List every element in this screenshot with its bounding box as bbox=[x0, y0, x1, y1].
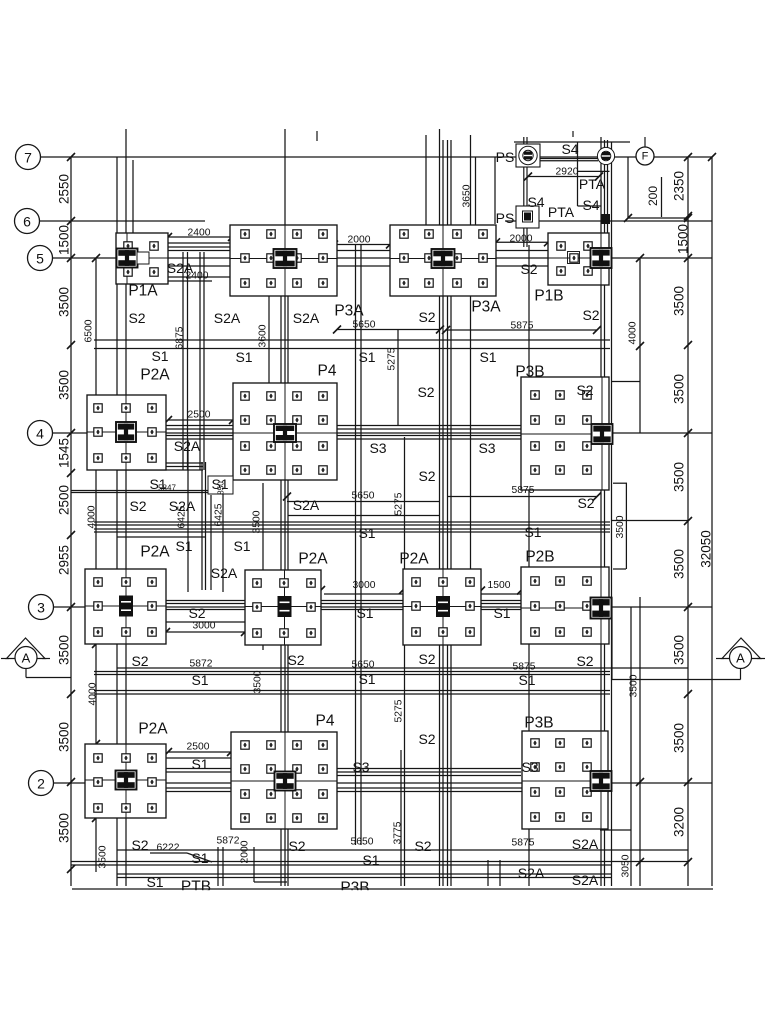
wire vertical line x=126 bbox=[125, 129, 127, 886]
svg-text:3500: 3500 bbox=[57, 813, 72, 843]
dimension 6500 (rotated) bbox=[84, 319, 95, 342]
wire vertical line x=447.5 bbox=[447, 140, 449, 886]
svg-text:S2: S2 bbox=[287, 652, 304, 668]
dimension ticks bbox=[67, 153, 716, 873]
wire strip/dimension line y=752 bbox=[168, 751, 231, 753]
wire strip/dimension line y=237 bbox=[168, 236, 285, 238]
wire strip/dimension line y=330 bbox=[446, 329, 597, 331]
wire strip/dimension line y=525 bbox=[94, 524, 610, 526]
svg-text:2920: 2920 bbox=[556, 167, 579, 178]
svg-text:S1: S1 bbox=[493, 605, 510, 621]
label S2 bbox=[582, 307, 599, 323]
svg-text:3650: 3650 bbox=[462, 184, 473, 207]
dimension 5275 (rotated) bbox=[394, 699, 405, 722]
grid bubble 3 bbox=[29, 595, 54, 620]
pile cap P2A row3 c bbox=[403, 569, 481, 645]
svg-text:2400: 2400 bbox=[188, 228, 211, 239]
wire vertical line x=475.5 bbox=[475, 157, 477, 248]
wire vertical line x=451 bbox=[450, 140, 452, 886]
svg-text:P3B: P3B bbox=[524, 715, 553, 732]
label S2 bbox=[288, 838, 305, 854]
label P2A bbox=[140, 544, 170, 561]
pile cap P3A right bbox=[390, 225, 496, 296]
svg-text:3500: 3500 bbox=[672, 723, 687, 753]
svg-text:2000: 2000 bbox=[348, 235, 371, 246]
label P3B bbox=[515, 364, 544, 381]
dimension 3600 (rotated) bbox=[258, 324, 269, 347]
label P3A bbox=[334, 303, 364, 320]
wire strip/dimension line y=420 bbox=[168, 419, 233, 421]
wire strip/dimension line y=850 bbox=[117, 849, 688, 851]
dimension 2500 bbox=[187, 742, 210, 753]
svg-text:S1: S1 bbox=[191, 850, 208, 866]
label S3 bbox=[352, 759, 369, 775]
svg-text:2350: 2350 bbox=[672, 171, 687, 201]
label S1 bbox=[149, 476, 166, 492]
dimension 5650 bbox=[352, 660, 375, 671]
svg-text:S1: S1 bbox=[479, 349, 496, 365]
label S1 bbox=[362, 852, 379, 868]
dimension 2920 bbox=[556, 167, 579, 178]
svg-text:S2: S2 bbox=[128, 310, 145, 326]
wire strip/dimension line y=861.5 bbox=[71, 861, 688, 863]
svg-text:S3: S3 bbox=[352, 759, 369, 775]
wire vertical line x=426 bbox=[425, 135, 427, 233]
wire vertical line x=631 bbox=[630, 607, 632, 886]
pile cap P2A row4 bbox=[87, 395, 166, 470]
dimension 2000 bbox=[348, 235, 371, 246]
wire strip/dimension line y=425.5 bbox=[94, 425, 610, 427]
wire vertical line x=223 bbox=[222, 847, 224, 886]
svg-text:S2: S2 bbox=[129, 498, 146, 514]
dimension 4000 (rotated) bbox=[87, 505, 98, 528]
label S4 bbox=[527, 194, 544, 210]
wire strip/dimension line y=874 bbox=[117, 873, 612, 875]
wire strip/dimension line y=600.5 bbox=[126, 600, 609, 602]
svg-text:P1B: P1B bbox=[534, 288, 563, 305]
label S2 bbox=[129, 498, 146, 514]
svg-text:5650: 5650 bbox=[351, 837, 374, 848]
dimension 200 (rotated) bbox=[646, 186, 660, 206]
wire vertical line x=611.5 bbox=[611, 142, 613, 886]
pile cap P1A bbox=[116, 233, 168, 284]
dimension 32050 (rotated) bbox=[699, 530, 714, 568]
svg-text:7: 7 bbox=[24, 150, 32, 166]
svg-text:S2A: S2A bbox=[214, 310, 241, 326]
svg-text:S2: S2 bbox=[576, 653, 593, 669]
dimension 5847 (tiny) bbox=[158, 484, 176, 493]
svg-text:S2: S2 bbox=[417, 384, 434, 400]
svg-text:3000: 3000 bbox=[193, 621, 216, 632]
svg-text:5875: 5875 bbox=[512, 485, 535, 496]
grid bubble 6 bbox=[15, 209, 40, 234]
svg-text:S1: S1 bbox=[362, 852, 379, 868]
svg-text:3500: 3500 bbox=[672, 462, 687, 492]
label S1 bbox=[191, 850, 208, 866]
svg-text:S2: S2 bbox=[418, 731, 435, 747]
svg-text:P2A: P2A bbox=[140, 367, 170, 384]
wire vertical line x=288 bbox=[287, 250, 289, 886]
wire vertical line x=398 bbox=[397, 330, 399, 426]
svg-text:3500: 3500 bbox=[672, 549, 687, 579]
svg-text:P2A: P2A bbox=[140, 544, 170, 561]
wire vertical line x=488 bbox=[487, 860, 489, 886]
wire strip/dimension line y=603.5 bbox=[126, 603, 609, 605]
svg-text:4000: 4000 bbox=[628, 321, 639, 344]
svg-text:3500: 3500 bbox=[57, 370, 72, 400]
svg-text:P1A: P1A bbox=[128, 283, 158, 300]
svg-text:S1: S1 bbox=[235, 349, 252, 365]
label S2 bbox=[131, 837, 148, 853]
dimension 1545 (rotated) bbox=[57, 438, 72, 468]
dimension 3500 (rotated) bbox=[57, 370, 72, 400]
svg-text:6222: 6222 bbox=[157, 843, 180, 854]
svg-text:P2A: P2A bbox=[138, 721, 168, 738]
wire vertical line x=628 bbox=[627, 157, 629, 218]
label S4 bbox=[582, 197, 599, 213]
label S2 bbox=[577, 495, 594, 511]
wire strip/dimension line y=791.5 bbox=[126, 791, 609, 793]
wire strip/dimension line y=218 bbox=[628, 217, 688, 219]
svg-text:S2A: S2A bbox=[211, 565, 238, 581]
label S1 bbox=[524, 524, 541, 540]
svg-text:S2: S2 bbox=[418, 309, 435, 325]
wire strip/dimension line y=501.5 bbox=[287, 501, 440, 503]
svg-text:S2A: S2A bbox=[293, 310, 320, 326]
svg-text:S1: S1 bbox=[518, 672, 535, 688]
grid line 6 bbox=[39, 220, 712, 222]
svg-text:S1: S1 bbox=[191, 756, 208, 772]
wire strip/dimension line y=277 bbox=[168, 276, 232, 278]
dimension 3050 (rotated) bbox=[621, 854, 632, 877]
svg-text:4000: 4000 bbox=[87, 505, 98, 528]
pile cap P1B bbox=[548, 233, 612, 285]
dimension 3500 (rotated) bbox=[253, 670, 264, 693]
wire vertical line x=96 bbox=[95, 258, 97, 872]
svg-text:3050: 3050 bbox=[621, 854, 632, 877]
dimension 3500 (rotated) bbox=[57, 722, 72, 752]
svg-text:5875: 5875 bbox=[511, 321, 534, 332]
wire strip/dimension line y=492.5 bbox=[71, 492, 233, 494]
wire strip/dimension line y=266 bbox=[117, 265, 609, 267]
svg-text:3500: 3500 bbox=[57, 722, 72, 752]
label S1 bbox=[146, 874, 163, 890]
svg-text:6875: 6875 bbox=[175, 326, 186, 349]
label S1 bbox=[233, 538, 250, 554]
bottom cut mask bbox=[0, 890, 768, 1024]
label S2 bbox=[418, 651, 435, 667]
svg-text:S1: S1 bbox=[191, 672, 208, 688]
svg-text:32050: 32050 bbox=[699, 530, 714, 568]
svg-text:S1: S1 bbox=[358, 525, 375, 541]
label S2 bbox=[418, 468, 435, 484]
svg-text:S1: S1 bbox=[358, 671, 375, 687]
wire strip/dimension line y=671.5 bbox=[94, 671, 610, 673]
svg-text:3775: 3775 bbox=[393, 821, 404, 844]
dimension 2000 (rotated) bbox=[240, 840, 251, 863]
wire strip/dimension line y=243 bbox=[168, 242, 232, 244]
svg-text:F: F bbox=[642, 151, 649, 163]
wire strip/dimension line y=690.5 bbox=[94, 690, 610, 692]
label S1 bbox=[151, 348, 168, 364]
dimension 3500 (rotated) bbox=[672, 462, 687, 492]
label S2 bbox=[520, 261, 537, 277]
svg-text:3500: 3500 bbox=[57, 287, 72, 317]
svg-text:3500: 3500 bbox=[672, 374, 687, 404]
grid bubble 7 bbox=[16, 145, 41, 170]
dimension 4000 (rotated) bbox=[628, 321, 639, 344]
wire strip/dimension line y=250.5 bbox=[117, 250, 609, 252]
dimension 1500 bbox=[488, 580, 511, 591]
grid bubble 4 bbox=[28, 421, 53, 446]
label PTA bbox=[548, 204, 575, 220]
dimension 3500 (rotated) bbox=[672, 723, 687, 753]
wire strip/dimension line y=882 bbox=[254, 881, 287, 883]
svg-text:5275: 5275 bbox=[394, 699, 405, 722]
label P3B bbox=[524, 715, 553, 732]
dimension 3000 bbox=[193, 621, 216, 632]
dimension 1500 (rotated) bbox=[676, 224, 691, 254]
svg-text:P4: P4 bbox=[316, 713, 335, 730]
dimension 5275 (rotated) bbox=[394, 492, 405, 515]
wire strip/dimension line y=244.5 bbox=[334, 244, 390, 246]
wire strip/dimension line y=515.5 bbox=[288, 515, 440, 517]
svg-text:5275: 5275 bbox=[387, 347, 398, 370]
dimension 3500 (rotated) bbox=[57, 813, 72, 843]
grid line 2 bbox=[53, 782, 712, 784]
pile cap P2A row3 b bbox=[245, 570, 321, 645]
wire vertical line x=443 bbox=[442, 140, 444, 886]
svg-text:1545: 1545 bbox=[57, 438, 72, 468]
wire strip/dimension line y=496.5 bbox=[447, 496, 597, 498]
svg-text:1500: 1500 bbox=[57, 225, 72, 255]
svg-text:S2: S2 bbox=[520, 261, 537, 277]
svg-text:S2: S2 bbox=[288, 838, 305, 854]
label S2A bbox=[211, 565, 238, 581]
wire strip/dimension line y=160.8 bbox=[540, 160, 598, 162]
wire top witness ticks bbox=[317, 131, 645, 147]
svg-text:PS: PS bbox=[496, 149, 515, 165]
dimension 3500 (rotated) bbox=[57, 287, 72, 317]
dimension 5650 bbox=[352, 491, 375, 502]
section marker A right bbox=[612, 597, 765, 680]
wire strip/dimension line y=594 bbox=[324, 593, 403, 595]
pile cap P3B row2 bbox=[522, 731, 612, 829]
svg-text:S1: S1 bbox=[356, 605, 373, 621]
label S2 bbox=[287, 652, 304, 668]
wire vertical line x=640 bbox=[639, 597, 641, 886]
dimension 5875 bbox=[513, 662, 536, 673]
svg-text:S1: S1 bbox=[211, 476, 228, 492]
label S2 bbox=[418, 309, 435, 325]
svg-text:3500: 3500 bbox=[98, 845, 109, 868]
dimension 3650 (rotated) bbox=[462, 184, 473, 207]
wire strip/dimension line y=340 bbox=[94, 339, 610, 341]
leader line 6222 bbox=[150, 853, 212, 862]
svg-text:P3B: P3B bbox=[515, 364, 544, 381]
wire strip/dimension line y=532 bbox=[94, 531, 610, 533]
svg-text:3500: 3500 bbox=[672, 635, 687, 665]
svg-text:S2: S2 bbox=[418, 651, 435, 667]
dimension 3500 (rotated) bbox=[615, 515, 626, 538]
svg-text:4: 4 bbox=[36, 426, 44, 442]
svg-text:2500: 2500 bbox=[57, 485, 72, 515]
svg-text:P4: P4 bbox=[318, 363, 337, 380]
wire vertical line x=218 bbox=[217, 847, 219, 886]
dimension 2400 bbox=[188, 228, 211, 239]
wire vertical line x=200 bbox=[199, 252, 201, 470]
wire vertical line x=183 bbox=[182, 252, 184, 470]
wire strip/dimension line y=329.5 bbox=[337, 329, 440, 331]
svg-text:5: 5 bbox=[36, 251, 44, 267]
wire strip/dimension line y=788 bbox=[126, 787, 609, 789]
wire vertical line x=404.5 bbox=[404, 437, 406, 886]
label S1 bbox=[518, 672, 535, 688]
wire vertical line x=529 bbox=[528, 245, 530, 886]
svg-text:2500: 2500 bbox=[188, 410, 211, 421]
pile cap P2B bbox=[521, 567, 612, 644]
svg-text:S1: S1 bbox=[149, 476, 166, 492]
wire vertical line x=355.5 bbox=[355, 244, 357, 845]
svg-text:6500: 6500 bbox=[84, 319, 95, 342]
wire strip/dimension line y=569 bbox=[613, 568, 626, 570]
label PTA bbox=[579, 176, 606, 192]
svg-text:5650: 5650 bbox=[352, 491, 375, 502]
svg-text:3500: 3500 bbox=[253, 670, 264, 693]
wire vertical line x=661.5 bbox=[661, 177, 663, 217]
label P2A bbox=[138, 721, 168, 738]
label S4 bbox=[561, 141, 578, 157]
wire vertical line x=71 bbox=[70, 157, 72, 886]
wire vertical line x=269 bbox=[268, 296, 270, 384]
wire vertical line x=688 bbox=[687, 157, 689, 886]
svg-text:S1: S1 bbox=[524, 524, 541, 540]
grid line 7 bbox=[41, 156, 713, 158]
label S2 bbox=[417, 384, 434, 400]
label S2A bbox=[293, 310, 320, 326]
dimension 6425 (rotated) bbox=[177, 505, 188, 528]
dimension 3000 bbox=[353, 580, 376, 591]
label P4 bbox=[316, 713, 335, 730]
wire vertical line x=254 bbox=[253, 847, 255, 882]
svg-text:S2: S2 bbox=[577, 495, 594, 511]
svg-text:3200: 3200 bbox=[672, 807, 687, 837]
svg-text:S2A: S2A bbox=[572, 872, 599, 888]
wire vertical line x=223 bbox=[222, 494, 224, 592]
wire vertical line x=495 bbox=[494, 157, 496, 224]
wire vertical line x=640 bbox=[639, 258, 641, 433]
dimension 3500 (rotated) bbox=[57, 635, 72, 665]
wire vertical line x=500 bbox=[499, 860, 501, 886]
wire vertical line x=712 bbox=[711, 157, 713, 886]
label PTB bbox=[181, 879, 211, 896]
label S3 bbox=[478, 440, 495, 456]
svg-text:2400: 2400 bbox=[186, 271, 209, 282]
wire strip/dimension line y=470 bbox=[117, 469, 203, 471]
dimension 3500 (rotated) bbox=[672, 635, 687, 665]
label S1 bbox=[191, 756, 208, 772]
wire PS wall segments bbox=[524, 167, 527, 247]
wire strip/dimension line y=466.5 bbox=[117, 466, 203, 468]
wire vertical line x=604.5 bbox=[604, 140, 606, 886]
wire strip/dimension line y=381.5 bbox=[612, 381, 641, 383]
svg-text:P3A: P3A bbox=[471, 299, 501, 316]
grid line 5 bbox=[53, 257, 713, 259]
wire vertical line x=204 bbox=[203, 252, 205, 470]
wire strip/dimension line y=877.5 bbox=[117, 877, 612, 879]
wire strip/dimension line y=768.5 bbox=[126, 768, 521, 770]
label S1 bbox=[479, 349, 496, 365]
wire vertical line x=263 bbox=[262, 483, 264, 650]
label P3B bbox=[340, 880, 369, 897]
dimension 2400 bbox=[186, 271, 209, 282]
svg-text:6: 6 bbox=[23, 214, 31, 230]
pile cap PS lower bbox=[516, 206, 539, 228]
wire strip/dimension line y=594 bbox=[481, 593, 521, 595]
wire strip/dimension line y=865 bbox=[71, 864, 612, 866]
wire strip/dimension line y=537 bbox=[117, 536, 205, 538]
svg-text:S3: S3 bbox=[521, 759, 538, 775]
label S2A bbox=[572, 872, 599, 888]
svg-text:S1: S1 bbox=[233, 538, 250, 554]
label S1 bbox=[175, 538, 192, 554]
svg-text:S2: S2 bbox=[418, 468, 435, 484]
wire strip/dimension line y=632 bbox=[166, 631, 245, 633]
svg-text:S4: S4 bbox=[561, 141, 578, 157]
svg-text:1500: 1500 bbox=[676, 224, 691, 254]
label S2A bbox=[214, 310, 241, 326]
svg-text:S3: S3 bbox=[478, 440, 495, 456]
svg-text:S2: S2 bbox=[582, 307, 599, 323]
grid line 4 bbox=[53, 432, 713, 434]
svg-text:5872: 5872 bbox=[190, 659, 213, 670]
wire strip/dimension line y=529 bbox=[94, 528, 610, 530]
dimension 2500 (rotated) bbox=[57, 485, 72, 515]
svg-text:S1: S1 bbox=[146, 874, 163, 890]
wire strip/dimension line y=622 bbox=[166, 621, 245, 623]
label S1 bbox=[358, 349, 375, 365]
wire vertical line x=285 bbox=[284, 129, 286, 886]
svg-text:PTA: PTA bbox=[579, 176, 606, 192]
drawing cut edge bbox=[72, 888, 713, 890]
label S2 bbox=[414, 838, 431, 854]
wire strip/dimension line y=247 bbox=[168, 246, 232, 248]
svg-text:6425: 6425 bbox=[177, 505, 188, 528]
wire strip/dimension line y=348.5 bbox=[94, 348, 610, 350]
wire vertical line x=626.4 bbox=[625, 483, 627, 569]
svg-text:2000: 2000 bbox=[240, 840, 251, 863]
label S2 bbox=[131, 653, 148, 669]
pile cap P3A left bbox=[230, 225, 337, 296]
svg-text:S2: S2 bbox=[131, 837, 148, 853]
grid bubble 5 bbox=[28, 246, 53, 271]
dimension 3500 (rotated) bbox=[672, 549, 687, 579]
dimension 2550 (rotated) bbox=[57, 174, 72, 204]
wire vertical line x=401 bbox=[400, 750, 402, 886]
label S3 bbox=[369, 440, 386, 456]
wire strip/dimension line y=206 bbox=[578, 205, 601, 207]
svg-text:4000: 4000 bbox=[88, 682, 99, 705]
wire strip/dimension line y=439 bbox=[94, 438, 610, 440]
svg-text:5875: 5875 bbox=[513, 662, 536, 673]
label PS bbox=[496, 210, 515, 226]
wire strip/dimension line y=830 bbox=[600, 829, 631, 831]
wire strip/dimension line y=694 bbox=[94, 693, 610, 695]
svg-text:S2: S2 bbox=[414, 838, 431, 854]
svg-text:3500: 3500 bbox=[672, 286, 687, 316]
svg-text:S2: S2 bbox=[576, 382, 593, 398]
label PS bbox=[496, 149, 515, 165]
